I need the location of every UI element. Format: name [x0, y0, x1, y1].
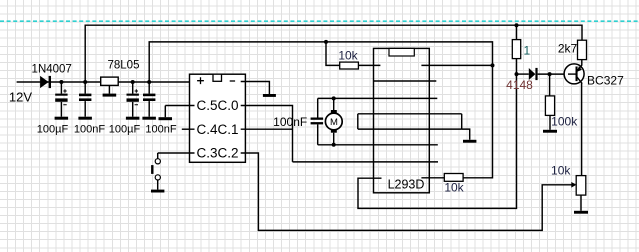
wire motor bottom lead	[333, 133, 335, 145]
wire switch to ground	[157, 180, 159, 190]
wire motor cap branch lower	[317, 124, 319, 144]
svg-text:100µF: 100µF	[109, 124, 141, 136]
svg-text:100µF: 100µF	[37, 124, 69, 136]
resistor 2k7	[578, 40, 587, 59]
junction C4 riser on 5V rail	[147, 80, 151, 84]
junction C2 riser on 12V rail	[83, 80, 87, 84]
svg-text:100nF: 100nF	[273, 115, 307, 129]
wire grounded rect right	[461, 114, 463, 129]
svg-text:100nF: 100nF	[74, 124, 105, 136]
wire MCU C.5 left pin	[165, 105, 194, 107]
wire L293D pin row1 right	[421, 64, 492, 66]
junction 10k drop on second rail	[324, 40, 328, 44]
capacitor C3 100uF polarized	[127, 89, 139, 104]
wire motor top lead	[333, 98, 335, 110]
wire C.5 pin ground lead	[164, 106, 166, 118]
svg-text:10k: 10k	[551, 163, 571, 177]
wire jog to ground	[462, 129, 470, 140]
resistor 10k top	[340, 62, 359, 69]
svg-text:100nF: 100nF	[145, 124, 176, 136]
svg-text:M: M	[330, 117, 338, 128]
svg-text:L293D: L293D	[388, 178, 425, 192]
MCU plus mark	[197, 77, 204, 84]
resistor R1 value 1	[512, 40, 520, 59]
wire MCU C.4 left stub	[182, 128, 194, 130]
svg-text:C.3C.2: C.3C.2	[196, 146, 238, 161]
junction motor bottom	[332, 143, 336, 147]
ground under switch	[151, 190, 164, 193]
MCU pin stubs inside box	[190, 82, 245, 154]
wire MCU C.3 left pin	[158, 152, 194, 154]
diode D1 1N4007	[40, 76, 51, 88]
svg-text:1: 1	[524, 43, 531, 57]
wire 100k top	[549, 74, 551, 96]
wire 100k bottom to ground	[549, 115, 551, 129]
junction C3 on 5V rail	[131, 80, 135, 84]
svg-text:2k7: 2k7	[558, 42, 578, 56]
svg-text:BC327: BC327	[587, 73, 624, 87]
ground for C.5 pin	[159, 117, 173, 120]
pot ground lead	[580, 195, 582, 211]
wire cap4 leads	[148, 82, 150, 94]
selection boundary dashed line	[0, 20, 639, 22]
wire motor bottom rail L293D output	[318, 144, 438, 146]
wire second rail to L293D right pin and 10k	[149, 42, 492, 178]
wire 10k top right lead	[358, 64, 380, 66]
wire MCU C.1 stub	[241, 128, 292, 130]
motor M1	[325, 110, 342, 133]
L293D IC box	[374, 48, 430, 192]
ground for MCU minus pin	[263, 94, 276, 97]
junction C1 on 12V rail	[59, 80, 63, 84]
ground under C3	[126, 117, 139, 120]
wire L293D row7 from MCU	[293, 161, 439, 163]
svg-text:10k: 10k	[338, 49, 358, 63]
junction base 100k node	[548, 72, 552, 76]
wire motor top rail L293D output	[318, 97, 438, 99]
wire cap1 leads	[60, 82, 62, 94]
diode D2 4148	[529, 68, 538, 80]
resistor 100k	[545, 96, 554, 116]
wire main 12V rail	[17, 81, 190, 83]
svg-text:10k: 10k	[444, 181, 464, 195]
ground under 78L05	[103, 94, 117, 97]
wire MCU C.0 route	[241, 106, 292, 162]
wire L293D row8 to 1 resistor node	[358, 25, 517, 208]
wire cap3 leads	[132, 82, 134, 94]
ground under C4	[142, 117, 156, 120]
ground under 100k	[543, 130, 557, 133]
ground for rect jog	[463, 140, 476, 143]
wire 78L05 ground lead	[108, 85, 110, 93]
wire motor cap branch upper	[317, 98, 319, 117]
svg-text:100k: 100k	[551, 115, 578, 129]
junction motor top	[332, 96, 336, 100]
svg-text:78L05: 78L05	[108, 60, 140, 72]
wire 10k bottom left lead	[421, 177, 444, 179]
wire 2k7 to emitter	[581, 60, 583, 66]
junction R1 top on top rail	[515, 23, 519, 27]
wire grounded rect bottom	[358, 128, 462, 130]
wire cap2 leads	[84, 82, 86, 94]
wire MCU minus pin to ground	[241, 82, 269, 95]
regulator 78L05 box	[101, 77, 119, 85]
wire collector to pot	[581, 83, 583, 175]
junction R1 bottom diode anode	[515, 72, 519, 76]
wire diode 4148 anode	[517, 73, 529, 75]
wire MCU C.2 route to pot wiper	[241, 153, 571, 230]
wire diode 4148 cathode to base	[538, 73, 576, 75]
capacitor C5 100nF motor	[311, 118, 324, 125]
svg-text:C.4C.1: C.4C.1	[196, 122, 238, 137]
capacitor C4 100nF	[143, 94, 155, 101]
MCU minus mark	[230, 80, 235, 82]
wire grounded rect top	[358, 113, 462, 115]
capacitor C2 100nF	[79, 94, 91, 101]
svg-text:12V: 12V	[9, 90, 32, 105]
svg-text:4148: 4148	[506, 78, 533, 92]
svg-text:1N4007: 1N4007	[32, 63, 72, 75]
wire grounded rect left	[357, 114, 359, 129]
transistor Q1 BC327	[564, 64, 584, 84]
wire 10k top drop	[326, 42, 340, 66]
potentiometer 10k	[571, 176, 586, 196]
wire top rail to 2k7	[85, 25, 582, 82]
ground under pot	[574, 211, 588, 214]
junction L293D pin row1 right	[491, 63, 495, 67]
MCU box U1	[190, 74, 246, 162]
switch S1 pushbutton	[151, 159, 160, 180]
ground under C1	[55, 117, 69, 120]
svg-text:C.5C.0: C.5C.0	[196, 98, 238, 113]
ground under C2	[78, 117, 92, 120]
wire C.3 to switch	[157, 153, 159, 159]
capacitor C1 100uF polarized	[55, 89, 67, 104]
wire L293D pin row2	[374, 80, 437, 82]
resistor 10k bottom	[444, 174, 463, 182]
